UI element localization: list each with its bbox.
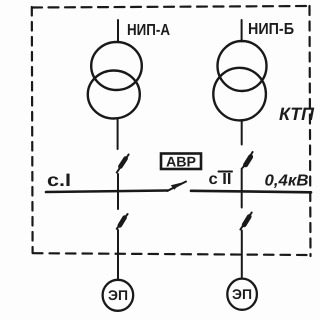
svg-text:с II: с II	[209, 171, 232, 188]
svg-text:АВР: АВР	[166, 154, 196, 170]
svg-text:НИП-Б: НИП-Б	[248, 21, 294, 38]
svg-text:НИП-А: НИП-А	[127, 22, 170, 39]
svg-text:ЭП: ЭП	[108, 287, 128, 303]
svg-text:КТП: КТП	[279, 104, 315, 124]
svg-text:с.I: с.I	[47, 170, 71, 190]
svg-text:ЭП: ЭП	[232, 286, 252, 302]
svg-text:0,4кВ: 0,4кВ	[265, 173, 309, 190]
